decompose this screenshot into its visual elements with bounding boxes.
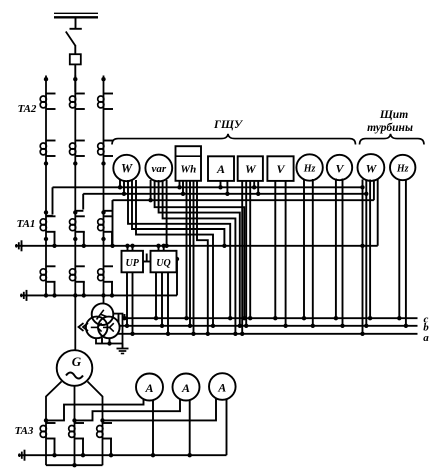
wire W2-meter lead 2 to bus b xyxy=(244,181,248,328)
ground symbol bottom xyxy=(18,450,26,461)
frequency meter P10 turbine panel (Hz circle) xyxy=(390,155,415,180)
wire L2 current chain (y=193.8) xyxy=(83,193,366,195)
svg-text:A: A xyxy=(181,381,190,395)
wire UP bottom lead 1 to bus b xyxy=(125,272,129,328)
current transformer TA3 phase C xyxy=(97,423,112,439)
ground symbol left upper xyxy=(15,240,23,251)
wire UP top lead 2 xyxy=(130,244,134,251)
wire W3-meter lead 3 to bus c xyxy=(368,180,372,321)
wire Hz-meter lead 1 to bus c xyxy=(302,179,306,320)
svg-text:A: A xyxy=(144,381,153,395)
wire generator phase lead C xyxy=(88,382,103,466)
wire Wh lead 3 to bus c xyxy=(184,181,188,320)
wire W-meter lead 3 staircase to bus c xyxy=(128,180,232,320)
wire TA1 core2 phase B secondary drop xyxy=(82,282,86,298)
frequency meter P7 (Hz circle) xyxy=(296,154,322,180)
svg-text:A: A xyxy=(216,162,225,176)
wattmeter P5 (W square) xyxy=(238,156,263,181)
wire Wh lead 6 staircase to bus a xyxy=(197,181,210,336)
wire var-meter lead 4 staircase to bus a xyxy=(163,180,238,336)
busbar (system bus, double line) xyxy=(54,13,98,17)
wire Wh lead 5 to bus a xyxy=(191,181,195,336)
voltage transformer TV windings xyxy=(86,303,120,338)
wire TA1 core2 phase A secondary drop xyxy=(52,282,56,298)
current transformer TA2 core 1 phase B xyxy=(70,94,85,110)
svg-text:ТА3: ТА3 xyxy=(15,425,34,437)
phase line A (left feeder) xyxy=(44,76,48,296)
wire W3-meter lead 5 to L4 xyxy=(377,180,379,246)
wire ammeter P12 return xyxy=(188,400,192,457)
ground symbol left lower xyxy=(20,290,28,301)
svg-text:Wh: Wh xyxy=(180,164,196,176)
wire Hz-meter lead 2 to bus b xyxy=(311,179,315,328)
current transformer TA3 phase B xyxy=(69,423,84,439)
current transformer TA1 core 1 phase A xyxy=(40,216,55,232)
wire W2-meter lead 1 to bus a xyxy=(240,181,244,336)
wattmeter P9 turbine panel (W circle) xyxy=(358,154,385,181)
node - TA3 taps xyxy=(44,418,105,422)
wire L1 current chain c521 (y=187.3) xyxy=(53,186,363,188)
svg-text:Hz: Hz xyxy=(303,164,316,175)
svg-text:турбины: турбины xyxy=(367,122,413,134)
wire var-meter lead 5 to L4 xyxy=(164,180,168,248)
wire V-meter lead 2 to bus b xyxy=(283,181,287,328)
wire generator phase lead A xyxy=(46,382,62,466)
arrows to excitation circuits xyxy=(79,323,89,331)
wire A-meter lead 2 to L2 xyxy=(225,181,229,196)
wire TA3 phase C secondary to ground wire xyxy=(109,439,113,458)
wire V2-meter lead 1 to bus c xyxy=(334,179,338,321)
wire TV secondary stubs xyxy=(102,338,112,346)
svg-text:A: A xyxy=(217,381,226,395)
label GSCHU xyxy=(213,119,244,131)
wire UP bottom lead 2 to bus a xyxy=(130,272,134,336)
wire A-meter lead 1 to L1 xyxy=(218,181,222,190)
bus b xyxy=(119,325,418,327)
wire W-meter lead 4 staircase to L4 xyxy=(132,180,227,248)
wire TA3 phase A secondary to ground wire xyxy=(52,439,56,458)
wire UQ bottom lead 1 to bus c xyxy=(154,272,158,320)
wire W2-meter lead 3 to bus c xyxy=(248,181,252,320)
label TA2 xyxy=(18,103,37,115)
phase line B (middle feeder) xyxy=(73,76,77,352)
transducer UP xyxy=(122,251,144,272)
wire ammeter P13 input xyxy=(103,399,217,421)
node - below TA1 core1 dots xyxy=(44,237,106,241)
wire Wh lead 1 to L1 xyxy=(177,181,181,190)
disconnector blade xyxy=(66,32,76,46)
current transformer TA2 core 1 phase C xyxy=(98,94,113,110)
wire UP top lead 1 xyxy=(125,244,129,251)
svg-text:V: V xyxy=(335,162,344,176)
wire W3-meter lead 2 to bus b xyxy=(364,180,368,328)
svg-text:V: V xyxy=(276,162,285,176)
wire V-meter lead 1 to bus c xyxy=(273,181,277,320)
wire ground return bottom (y=455.2) xyxy=(25,454,227,456)
wire VT to bus a xyxy=(110,329,114,336)
node - TA2 intercore junction dots xyxy=(44,161,106,165)
wire L5 neutral (y=295.4) xyxy=(27,294,177,296)
wire TA1 core1 phase B secondary drop xyxy=(82,232,86,248)
wire generator phase lead B xyxy=(74,386,76,465)
wire VT to bus c xyxy=(122,314,126,320)
ammeter P12 (A circle) xyxy=(173,374,200,401)
current transformer TA2 core 2 phase C xyxy=(98,141,113,157)
wire ammeter P11 input xyxy=(46,399,144,420)
generator G xyxy=(57,350,93,386)
current transformer TA1 core 2 phase A xyxy=(40,266,55,282)
svg-text:W: W xyxy=(366,162,378,176)
wire ammeter P11 return xyxy=(151,400,155,457)
wire W-meter lead 2 to L2 xyxy=(122,180,126,196)
current transformer TA2 core 2 phase B xyxy=(70,141,85,157)
varmeter P2 (var circle) xyxy=(145,155,172,182)
phase line C (right feeder) xyxy=(101,76,105,304)
wire UQ right terminal xyxy=(177,258,180,260)
wire Wh lead 4 to bus b xyxy=(188,181,192,328)
label b xyxy=(423,322,429,334)
current transformer TA1 core 2 phase B xyxy=(70,266,85,282)
svg-text:Hz: Hz xyxy=(396,164,409,175)
ground - TV neutral xyxy=(117,344,129,354)
svg-text:ГЩУ: ГЩУ xyxy=(213,119,244,131)
svg-text:G: G xyxy=(72,354,82,369)
svg-text:UQ: UQ xyxy=(156,258,170,269)
svg-text:UP: UP xyxy=(126,258,140,269)
wire W3-meter lead 1 to bus a xyxy=(360,180,364,336)
wire TA3 phase B secondary to ground wire xyxy=(81,439,85,458)
label a xyxy=(423,332,429,344)
wire generator star point xyxy=(46,463,103,467)
wire L3 branch down to L4 xyxy=(110,200,114,248)
label TA1 xyxy=(17,218,36,230)
wire var-meter lead 1 to L3 xyxy=(148,180,152,202)
wire Wh lead 2 to L2 xyxy=(181,181,185,196)
ammeter P4 (A square) xyxy=(208,156,234,181)
svg-text:ТА1: ТА1 xyxy=(17,218,36,230)
current transformer TA3 phase A xyxy=(40,423,55,439)
wattmeter P1 (W circle) xyxy=(113,155,139,181)
wire Hz2-meter lead 2 to bus b xyxy=(404,179,408,328)
wire TA1 core1 phase C secondary drop xyxy=(111,232,113,246)
wire var-meter lead 3 staircase to bus b xyxy=(159,180,242,328)
wire L4 neutral (y=245.8) xyxy=(22,245,378,247)
wire TA1 core1 phase A secondary drop xyxy=(52,232,56,248)
wire TA1 core2 phase C secondary drop xyxy=(110,282,114,298)
svg-text:a: a xyxy=(423,332,429,344)
wire TV secondary box xyxy=(96,314,123,344)
ammeter P11 (A circle) xyxy=(136,374,163,401)
wire L5 riser to UQ terminal xyxy=(175,257,179,296)
wire var-meter lead 2 staircase to bus c xyxy=(155,180,247,320)
wire W-meter lead 5 staircase to bus b xyxy=(136,180,215,328)
label turbiny xyxy=(367,122,413,134)
svg-text:ТА2: ТА2 xyxy=(18,103,37,115)
svg-text:W: W xyxy=(121,162,133,176)
wire Hz2-meter lead 1 to bus c xyxy=(397,179,401,320)
wire V2-meter lead 2 to bus b xyxy=(340,179,344,328)
current transformer TA1 core 1 phase C xyxy=(98,216,113,232)
ammeter P13 (A circle) xyxy=(209,373,236,400)
wire L3 current chain (y=200.2) xyxy=(113,199,374,201)
current transformer TA1 core 1 phase B xyxy=(70,216,85,232)
circuit breaker Q1 xyxy=(70,54,81,64)
label TA3 xyxy=(15,425,34,437)
wire ammeter P12 input xyxy=(75,399,181,420)
wire W2-meter lead 4 to L1 xyxy=(252,181,256,190)
svg-text:var: var xyxy=(151,163,166,175)
wire UQ bottom lead 3 to bus a xyxy=(166,272,170,336)
bus a xyxy=(113,333,418,335)
wire UQ top lead 2 xyxy=(162,244,166,251)
wire - busbar drop with tee xyxy=(70,17,82,29)
node - at L5 ground wire dots xyxy=(44,293,106,297)
wire L3 elbow from phase C tap xyxy=(104,200,113,211)
energy meter P3 (Wh) xyxy=(176,146,202,181)
node - above TA1 junction dots xyxy=(44,210,106,214)
label c xyxy=(424,314,429,326)
wire UP-UQ link xyxy=(143,254,151,262)
wire - blade to breaker xyxy=(74,45,76,54)
bus c xyxy=(125,317,418,319)
wire W-meter lead 1 to L1 xyxy=(118,180,122,190)
current transformer TA1 core 2 phase C xyxy=(98,266,113,282)
label Schit xyxy=(379,109,408,121)
transducer UQ xyxy=(151,251,177,272)
wire L1 elbow from phase A tap xyxy=(47,187,53,216)
bracket turbine panel xyxy=(360,134,425,145)
current transformer TA2 core 2 phase A xyxy=(40,141,55,157)
wire L2 elbow from phase B tap xyxy=(76,194,84,211)
current transformer TA2 core 1 phase A xyxy=(40,94,55,110)
wire ammeter P13 return xyxy=(226,399,228,455)
wire UQ top lead 1 xyxy=(156,244,160,251)
voltmeter P8 (V circle) xyxy=(327,155,352,180)
wire W3-meter lead 4 to L3 xyxy=(373,180,375,201)
bracket GSCHU panel xyxy=(112,134,356,145)
svg-text:Щит: Щит xyxy=(379,109,408,121)
wire - breaker to phase line B xyxy=(74,64,76,92)
wire VT to bus b xyxy=(116,314,120,328)
wire W2-meter lead 5 to L2 xyxy=(256,181,260,196)
voltmeter P6 (V square) xyxy=(267,156,293,181)
svg-text:W: W xyxy=(245,162,257,176)
wire UQ bottom lead 2 to bus b xyxy=(160,272,164,328)
